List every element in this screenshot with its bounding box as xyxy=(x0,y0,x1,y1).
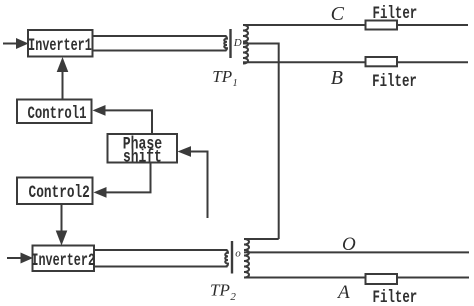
transformer TP2 primary winding xyxy=(225,250,228,267)
wire: Control1 up to Inverter1 xyxy=(62,71,64,100)
wire: feedback line into Phase shift from right xyxy=(191,152,208,219)
svg-text:D: D xyxy=(233,37,242,49)
arrowhead: Control1 into Inverter1 xyxy=(57,57,69,72)
svg-text:o: o xyxy=(235,247,241,259)
svg-text:A: A xyxy=(336,282,350,303)
svg-text:Control2: Control2 xyxy=(29,182,90,203)
svg-text:TP2: TP2 xyxy=(210,281,236,303)
arrowhead: Control2 into Inverter2 xyxy=(56,231,68,246)
box: Control1 xyxy=(17,100,92,124)
svg-text:shift: shift xyxy=(123,146,162,167)
arrowhead: input into Inverter2 xyxy=(21,253,34,264)
arrowhead: input into Inverter1 xyxy=(16,38,29,49)
transformer TP2 secondary winding xyxy=(244,239,249,278)
box: Inverter1 xyxy=(28,30,93,57)
wire: TP2 secondary top to vertical link xyxy=(244,238,279,240)
transformer TP2 core xyxy=(231,241,233,274)
svg-text:O: O xyxy=(342,234,356,255)
svg-text:C: C xyxy=(331,3,345,25)
arrowhead: Phase shift into Control2 xyxy=(94,187,107,198)
wire: phase B line from TP1 secondary bottom xyxy=(243,61,468,63)
svg-text:TP1: TP1 xyxy=(212,67,237,89)
box: filter on phase C xyxy=(366,21,398,30)
box: filter on phase B xyxy=(366,57,398,66)
wire: Inverter1 to TP1 primary top xyxy=(93,35,227,37)
wire: input arrow line into Inverter1 xyxy=(3,43,17,45)
box: Inverter2 xyxy=(33,246,95,272)
wire: phase O line from TP2 secondary tap xyxy=(244,251,469,253)
svg-text:Filter: Filter xyxy=(373,3,418,24)
box: Control2 xyxy=(17,178,93,205)
wire: phase A line from TP2 secondary bottom xyxy=(244,277,469,279)
wire: TP1 secondary center tap to vertical link xyxy=(243,44,279,240)
wire: Inverter2 to TP2 primary bottom xyxy=(94,266,228,268)
box: filter on phase A xyxy=(366,274,398,284)
svg-text:Filter: Filter xyxy=(373,287,418,306)
wire: Inverter1 to TP1 primary bottom xyxy=(93,50,227,52)
wire: Phase shift bottom down and left to Control2 xyxy=(105,163,151,193)
wire: input arrow line into Inverter2 xyxy=(7,257,22,259)
wire: phase C line from TP1 secondary top xyxy=(243,24,468,26)
svg-text:Filter: Filter xyxy=(372,71,417,92)
svg-text:Inverter1: Inverter1 xyxy=(28,35,92,56)
box: Phase shift xyxy=(108,134,178,163)
transformer TP1 primary winding xyxy=(224,36,227,51)
transformer TP1 secondary winding xyxy=(243,25,248,64)
transformer TP1 core xyxy=(229,29,231,58)
svg-text:Control1: Control1 xyxy=(27,103,86,124)
arrowhead: Phase shift into Control1 xyxy=(93,105,106,116)
arrowhead: feedback into Phase shift xyxy=(178,146,192,157)
wire: Inverter2 to TP2 primary top xyxy=(94,249,228,251)
wire: Phase shift top up and left to Control1 xyxy=(104,110,152,134)
svg-text:Inverter2: Inverter2 xyxy=(31,249,95,270)
wire: Control2 down to Inverter2 xyxy=(61,204,63,232)
svg-text:B: B xyxy=(331,67,343,89)
